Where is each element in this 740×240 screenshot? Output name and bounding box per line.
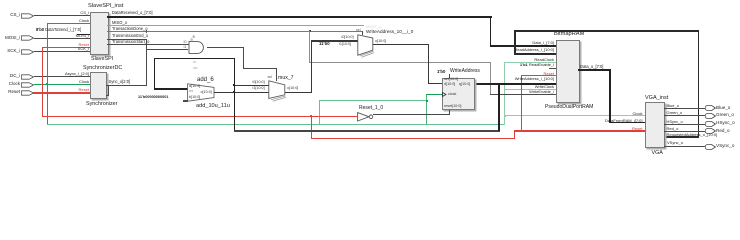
title SlaveSPI_inst: [88, 4, 123, 10]
label add_10u_11u: [196, 104, 230, 110]
label Reset: [8, 90, 20, 95]
wire 1b1 stub: [549, 68, 556, 69]
wire HSync_o: [664, 124, 706, 125]
pin Green_o: [667, 111, 683, 115]
adder add_6: [187, 83, 215, 102]
wire 1b0 stub: [449, 74, 450, 78]
module SynchronizerDC: [90, 72, 107, 99]
AND pin I0: [184, 41, 187, 45]
pin ReadAddress_i: [514, 48, 554, 52]
inverter Reset_1_0: [357, 112, 376, 122]
wire WriteEnable drop x490.5: [490, 62, 491, 94]
wire AND out y47.2: [207, 47, 244, 48]
bus loop x154.5: [154, 58, 156, 90]
bus ReadAddress y54: [514, 53, 556, 55]
label MOSI_i: [5, 36, 20, 41]
wire x146.5: [146, 39, 147, 86]
constant 1b0: [437, 70, 445, 74]
pin VGA Clock: [632, 112, 642, 116]
junction Reset x311: [310, 115, 312, 117]
adder pin b: [189, 96, 200, 100]
label SCK_i: [7, 49, 20, 54]
bus mux7 o y92: [285, 92, 312, 93]
mux2 pin i0: [342, 36, 354, 40]
wire inverter out y114.8: [373, 114, 450, 115]
pin DataReceived_o: [112, 11, 153, 15]
AND gate: [188, 41, 208, 54]
wire Clock stub to reg clock: [426, 94, 443, 95]
bus mux7 riser x311.5: [311, 40, 312, 92]
bus mux2 o drop x428.3: [428, 44, 429, 84]
bus Data_o y69.5: [578, 69, 612, 71]
pin TransactionDone_o: [112, 27, 148, 31]
bus DataReceived_o drop x490: [490, 16, 492, 47]
mux7 pin i1: [253, 87, 265, 91]
wire Clock riser x505: [504, 62, 505, 124]
wire Reset port to Synchronizer: [33, 92, 90, 94]
mux7 pin o: [287, 87, 298, 91]
wire AND out drop x243: [243, 47, 244, 69]
output port Blue_o: [705, 105, 716, 111]
label mux_7: [278, 76, 294, 81]
wire TransmissionStart_o y44.8: [107, 44, 189, 45]
bus loop x499: [498, 83, 500, 131]
bus add a y88.8: [154, 88, 188, 90]
wire VSync_o: [664, 146, 706, 147]
wire Sync_o hook stub: [106, 95, 109, 96]
label add_6: [197, 77, 214, 83]
input port CS_i: [21, 13, 34, 19]
wire Reset trunk y116: [42, 116, 357, 117]
wire Green_o: [664, 115, 706, 116]
bus Data_i y46: [490, 45, 557, 47]
wire TransactionDone branch y62.8: [309, 62, 491, 63]
junction Clock x505: [504, 115, 506, 117]
pin WriteClock: [535, 85, 554, 89]
constant 11b00000000001: [138, 96, 168, 100]
type label Synchronizer: [86, 102, 117, 107]
reg pin clock: [448, 93, 456, 97]
type label PseudoDualPortRAM: [545, 105, 593, 110]
label CS_i: [10, 13, 20, 18]
input port SCK_i: [21, 49, 34, 55]
reg pin d: [444, 83, 455, 87]
input port Clock: [21, 82, 34, 88]
wire SCK_i: [34, 51, 90, 52]
pin DataFromRAM_i: [605, 119, 643, 123]
wire Clock y100: [319, 100, 427, 101]
faint net label: [366, 25, 381, 29]
bus RequestedAddress x698: [698, 30, 699, 136]
wire WriteClock stub: [504, 89, 556, 90]
pin Reset: [79, 43, 89, 47]
wire WriteEnable y95: [490, 94, 556, 95]
pin Data_i: [532, 41, 554, 45]
wire Clock riser x320: [319, 100, 320, 125]
reg pin reset: [444, 105, 461, 109]
title WriteAddress: [450, 69, 480, 74]
wire 8b0 stub: [77, 34, 90, 36]
pin Sync Reset: [79, 88, 89, 92]
wire MOSI_i: [34, 38, 90, 39]
mux7 pin sel: [268, 76, 273, 80]
wire MISO_o dangling: [107, 25, 364, 26]
bus DataReceived_o y17: [107, 16, 492, 18]
wire Clock riser x47: [47, 23, 48, 125]
junction Clock x47: [46, 83, 48, 85]
pin ReadEnable: [520, 63, 554, 67]
label Red_o: [716, 129, 730, 134]
output port HSync_o: [705, 121, 716, 127]
type label SlaveSPI: [91, 57, 113, 62]
mux2 pin sel: [356, 29, 361, 33]
bus add o y92.3: [214, 92, 270, 93]
wire Reset riser x514.5: [514, 131, 515, 140]
mux WriteAddress_10__i_0: [357, 34, 376, 58]
wire Reset riser x311: [311, 116, 312, 139]
pin MOSI_i: [76, 34, 89, 38]
bus DataFromRAM y122.5: [609, 122, 645, 124]
pin Data_o: [580, 65, 603, 69]
wire Reset to SlaveSPI: [42, 47, 90, 48]
module VGA_inst: [645, 102, 665, 148]
pin VSync_o: [667, 141, 683, 145]
reg clock marker: [442, 92, 447, 97]
bus mux2 i0 y40.8: [311, 40, 359, 41]
label Clock: [9, 82, 20, 87]
bus loop y58: [154, 58, 236, 60]
pin Sync_o: [109, 80, 131, 84]
pin Blue_o: [667, 104, 679, 108]
junction loop x234.3: [233, 84, 235, 86]
reg pin q: [459, 83, 470, 87]
wire Clock trunk y124: [47, 124, 506, 125]
junction q x499: [498, 83, 500, 85]
wire Red_o: [664, 131, 706, 132]
label Blue_o: [716, 106, 730, 111]
output port Green_o: [705, 113, 716, 119]
wire AND I1 y49.5: [146, 49, 188, 50]
wire TransmissionEnd_o y39: [107, 39, 147, 40]
module BitmapRAM: [556, 40, 580, 103]
pin Red_o: [667, 127, 679, 131]
output port VSync_o: [705, 144, 716, 150]
wire TransactionDone branch x309.5: [309, 31, 310, 63]
wire Sync_o y85.3: [106, 85, 147, 86]
module SlaveSPI_inst: [90, 12, 109, 55]
constant 8b0 DataToSend: [36, 28, 81, 32]
wire Reset to BitmapRAM: [521, 75, 557, 76]
wire mux7 sel drop: [276, 68, 277, 81]
wire const stub y100.8: [183, 100, 188, 101]
junction Reset x521: [520, 130, 522, 132]
mux7 pin i0: [253, 81, 265, 85]
pin TransmissionStart_o: [112, 40, 149, 44]
bus q y83.5: [474, 83, 557, 85]
title BitmapRAM: [554, 32, 584, 38]
title VGA_inst: [645, 96, 668, 102]
wire AND out y68: [243, 68, 277, 69]
bus mux7 i0 y85.3: [234, 85, 269, 86]
wire Blue_o: [664, 108, 706, 109]
wire reg reset drop x449: [449, 110, 450, 116]
junction TransactionDone x309.5: [309, 30, 311, 32]
pin Async_i: [65, 72, 89, 76]
pin VGA Reset: [632, 127, 642, 131]
bus RequestedAddress y31: [514, 30, 699, 31]
wire Clock port to Synchronizer: [34, 84, 90, 85]
pin SCK_i: [78, 47, 89, 51]
label Reset_1_0: [359, 106, 383, 111]
pin ReadClock: [534, 58, 554, 62]
input port MOSI_i: [21, 35, 34, 41]
junction add o x234: [233, 91, 235, 93]
wire Reset riser x42: [42, 47, 44, 117]
register WriteAddress: [442, 78, 475, 111]
input port DC_i: [21, 74, 34, 80]
reg pin set: [444, 78, 458, 82]
pin Clock: [79, 19, 89, 23]
pin WriteAddress_i: [515, 77, 554, 81]
bus Data_o drop x610: [609, 69, 611, 123]
wire Reset y138.5: [311, 138, 516, 139]
mux mux_7: [268, 80, 288, 104]
tick x146: [146, 30, 147, 34]
pin RequestedAddress_o: [667, 133, 718, 137]
AND attr: [191, 36, 195, 42]
wire TransactionDone_o y31.5: [107, 31, 363, 32]
mux2 pin o: [375, 40, 386, 44]
pin RAM Reset: [544, 72, 554, 76]
input port Reset: [21, 90, 34, 96]
pin MISO_o: [112, 21, 127, 25]
junction Reset x42: [42, 92, 44, 94]
bus loop x234.3: [234, 58, 236, 132]
wire Reset riser x521: [521, 75, 522, 131]
wire Reset to VGA: [514, 130, 645, 131]
bus reg d y83.5: [428, 83, 443, 84]
title SynchronizerDC: [83, 66, 122, 71]
pin HSync_o: [667, 120, 683, 124]
wire Sync_o hook: [108, 85, 109, 95]
wire Clock riser x427: [426, 94, 427, 125]
pin CS_i: [80, 11, 89, 15]
wire mux2 sel drop: [362, 31, 363, 35]
pin TransmissionEnd_o: [112, 34, 148, 38]
mux2 pin i1: [339, 43, 351, 47]
pin Sync Clock: [79, 80, 89, 84]
output port Red_o: [705, 128, 716, 134]
wire Clock to VGA: [504, 115, 645, 116]
label DC_i: [10, 74, 20, 79]
adder attr o: [194, 67, 198, 71]
wire ReadClock stub: [504, 62, 556, 63]
bus RequestedAddress stub y136.8: [665, 136, 700, 138]
label WriteAddress_10__i_0: [366, 30, 413, 35]
bus mux2 o y44: [373, 44, 429, 45]
adder attr i: [194, 61, 197, 65]
wire Clock to SlaveSPI: [47, 23, 91, 24]
bus ReadAddress drop x514.5: [514, 30, 515, 54]
constant 11b0: [319, 42, 330, 46]
wire DC_i: [34, 76, 90, 77]
AND pin I1: [184, 46, 187, 50]
type label VGA: [652, 151, 663, 156]
wire CS_i: [34, 15, 90, 16]
junction Clock x427: [426, 100, 428, 102]
pin WriteEnable_i: [529, 90, 554, 94]
label HSync_o: [716, 121, 735, 126]
bus loop y130.5: [234, 130, 500, 132]
label VSync_o: [716, 144, 734, 149]
adder op: [189, 90, 193, 94]
adder pin o: [201, 91, 212, 95]
adder pin a: [189, 85, 200, 89]
label Green_o: [716, 113, 734, 118]
